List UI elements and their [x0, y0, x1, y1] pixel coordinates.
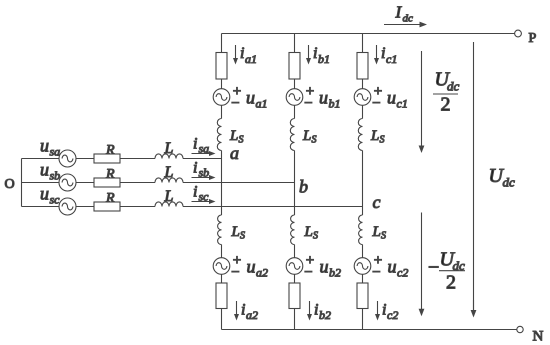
svg-text:i: i [193, 136, 197, 153]
svg-text:sa: sa [199, 142, 210, 156]
svg-text:i: i [382, 302, 386, 319]
svg-text:a2: a2 [256, 266, 268, 280]
svg-text:dc: dc [403, 13, 414, 25]
svg-text:dc: dc [447, 79, 460, 94]
svg-text:sc: sc [50, 193, 61, 207]
svg-text:−: − [372, 265, 380, 281]
svg-text:i: i [241, 302, 245, 319]
svg-text:sa: sa [50, 145, 61, 159]
svg-text:a2: a2 [246, 308, 258, 322]
svg-text:u: u [247, 257, 256, 277]
svg-text:L: L [372, 224, 381, 240]
svg-text:u: u [319, 88, 328, 108]
svg-text:N: N [533, 329, 544, 345]
svg-text:2: 2 [441, 94, 451, 116]
svg-text:b2: b2 [319, 308, 331, 322]
svg-text:u: u [40, 160, 49, 180]
svg-text:L: L [164, 140, 174, 157]
svg-text:u: u [246, 88, 255, 108]
svg-text:O: O [5, 177, 15, 192]
svg-text:S: S [380, 135, 385, 146]
svg-text:L: L [304, 224, 313, 240]
svg-text:u: u [40, 184, 49, 204]
svg-text:S: S [313, 231, 318, 242]
svg-text:b: b [299, 177, 308, 197]
svg-text:b1: b1 [329, 97, 341, 111]
svg-text:−: − [304, 96, 312, 112]
svg-text:−: − [231, 96, 239, 112]
svg-text:S: S [381, 231, 386, 242]
svg-text:S: S [239, 135, 244, 146]
svg-text:L: L [302, 128, 311, 144]
svg-text:sb: sb [50, 169, 61, 183]
svg-text:2: 2 [446, 272, 456, 294]
svg-text:u: u [388, 257, 397, 277]
svg-text:i: i [381, 45, 385, 62]
svg-text:u: u [40, 136, 49, 156]
svg-text:c: c [373, 192, 381, 212]
svg-text:b1: b1 [318, 52, 330, 66]
svg-text:L: L [164, 188, 174, 205]
svg-text:b2: b2 [329, 266, 341, 280]
svg-text:−: − [304, 265, 312, 281]
svg-text:a1: a1 [245, 52, 257, 66]
svg-text:i: i [193, 184, 197, 201]
svg-text:u: u [387, 88, 396, 108]
svg-text:a: a [230, 143, 239, 163]
svg-text:S: S [312, 135, 317, 146]
svg-text:u: u [320, 257, 329, 277]
svg-text:L: L [231, 224, 240, 240]
svg-text:c1: c1 [386, 52, 397, 66]
svg-text:R: R [105, 143, 115, 158]
svg-text:P: P [529, 31, 537, 46]
svg-text:a1: a1 [256, 97, 268, 111]
svg-text:L: L [229, 128, 238, 144]
svg-text:i: i [313, 45, 317, 62]
svg-text:I: I [395, 3, 403, 22]
svg-text:sc: sc [199, 190, 210, 204]
svg-text:−: − [372, 96, 380, 112]
svg-text:dc: dc [503, 175, 516, 190]
svg-text:i: i [314, 302, 318, 319]
svg-text:−: − [428, 257, 439, 279]
svg-text:L: L [164, 164, 174, 181]
svg-text:S: S [240, 231, 245, 242]
svg-text:c1: c1 [397, 97, 408, 111]
svg-text:R: R [105, 167, 115, 182]
svg-text:i: i [240, 45, 244, 62]
svg-text:−: − [231, 265, 239, 281]
svg-text:sb: sb [199, 166, 210, 180]
svg-text:i: i [193, 160, 197, 177]
svg-text:L: L [370, 128, 379, 144]
svg-text:c2: c2 [397, 266, 408, 280]
svg-text:c2: c2 [387, 308, 398, 322]
svg-text:R: R [105, 191, 115, 206]
